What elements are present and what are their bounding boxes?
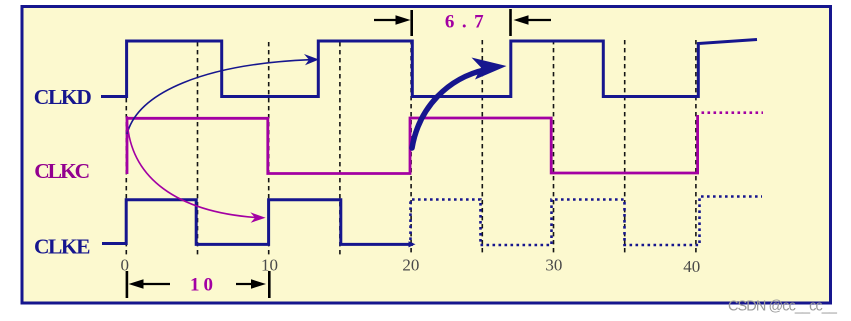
signal label CLKE [34,235,91,259]
thin navy curved arrow CLKC to CLKD [127,54,319,134]
axis number 40 [683,257,700,276]
gridline t=15 [339,42,341,256]
svg-text:10: 10 [261,256,278,275]
gridline t=20 [410,40,412,256]
watermark CSDN [728,299,838,315]
CLKE solid end arrow tip [409,241,416,247]
svg-text:30: 30 [545,256,562,275]
dimension 6.7 right arrow [514,15,552,24]
gridline t=5 [197,42,199,256]
axis number 30 [545,256,562,275]
gridline t=25 [481,40,483,256]
axis number 0 [120,256,129,275]
gridline t=40 [695,40,697,256]
axis number 20 [402,256,419,275]
svg-text:6.7: 6.7 [445,12,491,33]
dimension 10 left tick [126,271,129,298]
signal label CLKD [34,85,92,109]
dimension 10 right arrow [236,279,266,288]
svg-text:20: 20 [402,256,419,275]
magenta curved arrow CLKC to CLKE [127,116,266,223]
dimension 6.7 left arrow [374,15,411,24]
gridline t=30 [553,40,555,256]
dimension 10 value label [190,275,217,296]
svg-text:10: 10 [190,275,217,296]
dimension 6.7 right tick [509,9,512,36]
dimension 10 right tick [268,271,271,298]
axis number 10 [261,256,278,275]
svg-text:0: 0 [120,256,129,275]
gridline t=35 [624,40,626,256]
dimension 6.7 left tick [410,10,413,36]
CLKC waveform dotted continuation [702,111,764,114]
CLKD waveform [101,40,757,97]
CLKE waveform solid [102,200,413,245]
dimension 10 left arrow [129,279,171,288]
gridline t=10 [268,42,270,256]
svg-text:CSDN @cc__cc__: CSDN @cc__cc__ [728,299,838,315]
thick navy curved arrow CLKC to CLKD [412,58,507,149]
svg-text:CLKE: CLKE [34,235,91,259]
CLKC waveform solid [127,115,698,174]
dimension 6.7 value label [445,12,491,33]
svg-text:CLKC: CLKC [34,159,90,183]
signal label CLKC [34,159,90,183]
svg-text:40: 40 [683,257,700,276]
gridline t=0 [125,42,127,256]
CLKE waveform dotted continuation [411,197,763,247]
svg-text:CLKD: CLKD [34,85,92,109]
